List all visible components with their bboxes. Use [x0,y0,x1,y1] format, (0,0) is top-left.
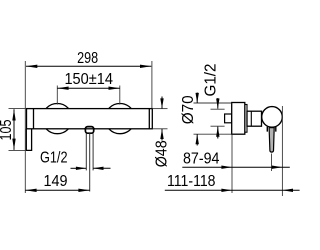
extension 105 bottom [9,149,27,151]
centre line circle 1 [56,86,58,105]
lever handle stick (grey) [269,128,274,153]
dim 150±14 [57,87,120,90]
hose pipe line left [85,133,87,170]
escutcheon sleeve (behind) [245,105,247,133]
extension line left long (298/149) [24,61,26,193]
dim 105 (vertical, left) [12,109,15,150]
escutcheon circle left (behind bar) [42,104,72,134]
dim 298 [26,65,151,68]
dim 87-94 [182,166,289,169]
lever knob circle [262,107,283,128]
svg-text:87-94: 87-94 [183,150,220,167]
ext lines G1/2 inlet [211,108,225,110]
svg-text:298: 298 [77,50,98,67]
hose pipe centre line down to 149 dim [89,133,91,191]
wall elbow outlet below bar left [26,129,31,151]
svg-text:G1/2: G1/2 [40,150,68,167]
dim G1/2 (right view, vertical) [216,98,219,139]
ext line knob front C [281,106,283,196]
svg-text:Ø48: Ø48 [154,140,171,167]
dim Ø70 (vertical) [196,93,199,146]
ext line lever centre B [271,154,273,172]
mixer body cylinder [247,111,262,126]
svg-text:150±14: 150±14 [64,71,113,88]
dim Ø48 (vertical, right of bar) [160,97,163,141]
svg-text:G1/2: G1/2 [203,64,220,97]
svg-text:149: 149 [44,173,68,190]
dim 111-118 [165,189,300,192]
extension lines 048 right of bar [153,108,168,110]
centre line circle 2 [119,86,121,105]
svg-text:Ø70: Ø70 [180,95,197,124]
svg-text:105: 105 [0,119,15,140]
escutcheon circle right (behind bar) [105,104,135,134]
hose pipe line right [92,133,94,170]
dim G1/2 (left view, at hose pipe) [71,167,111,170]
extension line right of bar for 298 [151,61,153,108]
dim 149 [25,189,89,192]
lever fork ears [267,127,276,132]
G1/2 inlet nipple [225,114,232,123]
ext lines Ø70 [194,102,232,104]
right end cap line [148,109,150,129]
left end cap line [33,109,35,129]
svg-text:111-118: 111-118 [167,173,216,190]
shower hose connection cap under bar [85,127,93,134]
ext line wall plane A [231,135,233,194]
wall escutcheon plate [232,103,245,135]
body step line [250,111,252,126]
extension 105 top [9,108,27,110]
mixer bar body [27,109,153,129]
